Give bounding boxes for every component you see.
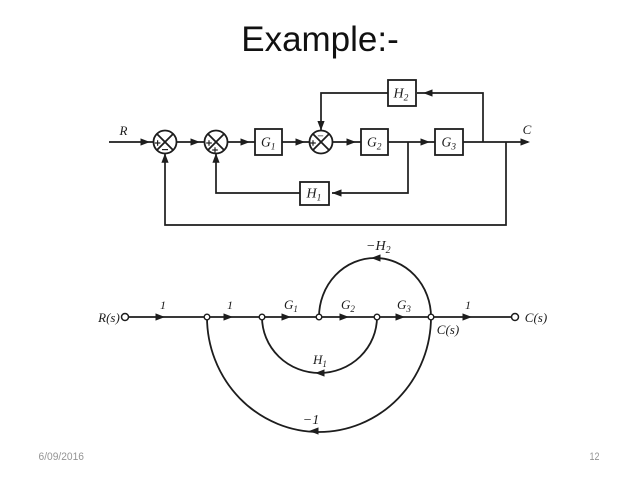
- arrow into G2: [347, 138, 357, 145]
- arrow branch 2: [224, 313, 234, 320]
- wire sum2 to G1: [227, 141, 255, 143]
- arrow into G1: [241, 138, 251, 145]
- node n5: [428, 314, 434, 320]
- sign + on S2: [206, 140, 212, 146]
- wire sum1 to sum2: [177, 141, 204, 143]
- arrow branch G2: [340, 313, 350, 320]
- arrow down into S3: [317, 121, 324, 131]
- block G3: [435, 129, 463, 155]
- wire main line: [129, 316, 512, 318]
- arrow up into S2: [212, 153, 219, 163]
- arrow into H2: [423, 89, 433, 96]
- wire H2 output to sum3: [321, 93, 388, 130]
- sign + on S1: [155, 140, 161, 146]
- node n1: [204, 314, 210, 320]
- svg-text:Example:-: Example:-: [241, 20, 399, 59]
- svg-text:1: 1: [160, 298, 166, 312]
- arrow branch G1: [282, 313, 292, 320]
- arrow R into S1: [141, 138, 151, 145]
- block G2: [361, 129, 388, 155]
- wire sum3 to G2: [333, 141, 361, 143]
- wire G3 to C output: [463, 141, 528, 143]
- node C(s) output: [512, 314, 519, 321]
- svg-text:6/09/2016: 6/09/2016: [39, 451, 85, 463]
- sign - top on S3: [318, 135, 323, 137]
- summing junction S3: [310, 131, 333, 154]
- arrow on -1 arc: [309, 427, 319, 434]
- arrow on -H2 arc: [371, 254, 381, 261]
- svg-text:−1: −1: [303, 413, 319, 428]
- summing junction S1: [154, 131, 177, 154]
- wire H1 output to sum2: [216, 154, 300, 193]
- svg-text:C(s): C(s): [437, 322, 459, 337]
- branch arc H1: [262, 317, 377, 373]
- node R(s) input: [122, 314, 129, 321]
- svg-text:R: R: [119, 123, 128, 138]
- block G1: [255, 129, 282, 155]
- node n4: [374, 314, 380, 320]
- arrow on H1 arc: [315, 369, 325, 376]
- arrow up into S1: [161, 153, 168, 163]
- arrow into S3: [296, 138, 306, 145]
- arrow into G3: [421, 138, 431, 145]
- wire G2 to G3: [388, 141, 435, 143]
- block H1: [300, 182, 329, 205]
- sign - on S1: [162, 149, 168, 151]
- node n3: [316, 314, 322, 320]
- sign + lower on S2: [212, 147, 218, 153]
- wire outer feedback loop: [165, 142, 506, 225]
- wire G1 to sum3: [282, 141, 310, 143]
- svg-text:R(s): R(s): [97, 310, 120, 325]
- block H2: [388, 80, 416, 106]
- svg-text:12: 12: [590, 451, 600, 463]
- svg-text:C: C: [523, 122, 532, 137]
- arrow branch 1: [156, 313, 166, 320]
- node n2: [259, 314, 265, 320]
- arrow into H1: [332, 189, 342, 196]
- arrow C output: [521, 138, 531, 145]
- svg-text:1: 1: [465, 298, 471, 312]
- arrow into S2: [191, 138, 201, 145]
- svg-text:1: 1: [227, 298, 233, 312]
- sign + on S3: [310, 140, 316, 146]
- branch arc -H2: [319, 258, 431, 317]
- wire R input: [109, 141, 153, 143]
- wire H2 feedback takeoff: [417, 93, 483, 142]
- svg-text:C(s): C(s): [525, 310, 547, 325]
- wire H1 feedback takeoff: [332, 142, 408, 193]
- branch arc -1: [207, 317, 431, 432]
- arrow branch G3: [396, 313, 406, 320]
- arrow branch out 1: [463, 313, 473, 320]
- summing junction S2: [205, 131, 228, 154]
